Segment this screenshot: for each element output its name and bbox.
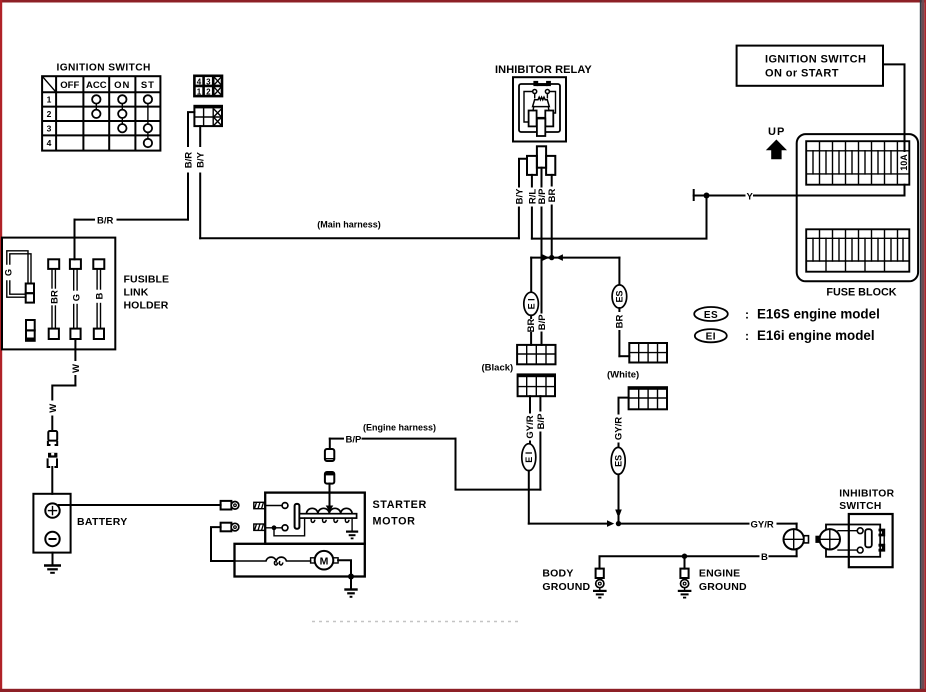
ring terminal B [221,501,239,510]
ES branch wire [612,258,629,357]
svg-text:(Black): (Black) [482,363,514,374]
svg-text:2: 2 [206,88,211,97]
svg-text:GROUND: GROUND [699,581,747,593]
svg-text:3: 3 [47,123,52,133]
svg-text:FUSIBLE: FUSIBLE [124,274,170,286]
svg-text:ES: ES [615,290,625,302]
inhibitor relay title [495,64,592,76]
solenoid B contact [265,503,288,509]
ignition switch ON or START box [737,46,883,86]
fusible link BR [48,259,61,339]
wire B/R into fusible link holder [74,220,76,260]
black connector 2 [518,374,555,396]
legend EI [695,328,875,343]
white connector 1 [629,343,667,363]
solenoid pull-in wire from S [274,518,305,536]
svg-text::: : [745,308,749,322]
arrow down to GY/R junction [615,510,622,519]
svg-text:M: M [320,556,329,568]
junction dot engine ground [682,554,687,559]
svg-text:G: G [4,269,14,276]
EI ellipse [524,292,539,315]
ES ellipse [612,285,627,308]
svg-text:BATTERY: BATTERY [77,516,128,528]
wire BR from relay [547,175,558,255]
arrow right at BR junction [542,254,549,261]
svg-text:GY/R: GY/R [614,417,625,440]
svg-text:ON or START: ON or START [765,68,839,80]
GY/R junction and wire to inhibitor switch [529,519,797,530]
relay internal wiring [524,92,556,123]
inhibitor switch slot [865,529,872,547]
ignition switch table title [57,63,151,74]
scan artifact speckles [312,621,518,623]
svg-text:STARTER: STARTER [373,499,427,511]
inhibitor switch body [849,514,893,567]
svg-text:ACC: ACC [86,80,107,91]
inhibitor switch connector (right bulb) [815,529,840,549]
fusible link holder G loop [3,251,34,303]
relay contact bridge [533,81,551,94]
svg-text:BR: BR [526,319,537,333]
arrow left at BR junction [556,254,563,261]
svg-text:IGNITION SWITCH: IGNITION SWITCH [57,63,151,74]
svg-text:W: W [71,364,82,373]
fuse block label [826,287,896,299]
svg-text:Y: Y [747,191,754,202]
svg-text:(White): (White) [607,370,639,381]
starter ground [344,577,357,597]
svg-text:4: 4 [47,138,52,148]
fusible link B [93,259,105,339]
svg-text:B/R: B/R [184,152,195,169]
connector tick on Y wire [693,190,695,200]
svg-text:B/P: B/P [346,434,363,445]
svg-text:GY/R: GY/R [525,415,536,438]
junction dot BR [549,255,554,260]
ES ellipse 2 [611,447,625,474]
wire motor to ground junction [338,560,351,576]
svg-text:(Engine harness): (Engine harness) [363,423,436,433]
svg-text:ST: ST [141,80,155,91]
legend ES [694,307,880,322]
inline connector (W wire, male half) [48,453,58,494]
svg-text:MOTOR: MOTOR [373,516,416,528]
wire B to inhibitor switch [600,549,797,569]
ignition switch table S1 [42,76,160,150]
label (Black) [482,363,514,374]
svg-text:B: B [761,552,768,563]
wire GY/R from white connector (ES) [611,398,628,524]
svg-text:OFF: OFF [60,80,79,91]
ring terminal S [221,523,239,532]
svg-text:10A: 10A [899,154,909,171]
starter motor solenoid box [265,493,427,544]
svg-text:SWITCH: SWITCH [839,501,881,512]
wire B/Y main harness [196,126,519,238]
wire Y from fuse block [694,185,905,203]
svg-text:E16S engine model: E16S engine model [757,307,880,322]
svg-text:EI: EI [706,332,716,343]
junction dot Y [704,193,710,199]
relay terminals [529,111,554,137]
svg-text:ES: ES [613,455,623,467]
svg-text:B/Y: B/Y [196,151,207,168]
starter S stud (hatched) [254,524,265,530]
svg-text:IGNITION SWITCH: IGNITION SWITCH [765,54,866,66]
solenoid coil ground [346,518,358,538]
wire B/Y from relay [515,159,528,205]
BR junction bar [531,254,619,261]
starter B stud (hatched) [254,502,265,508]
wire GY/R from black connector (EI) [522,396,536,523]
svg-text:3: 3 [206,77,211,86]
wire B/P from black connector to engine harness [536,396,547,489]
svg-text:HOLDER: HOLDER [124,300,169,312]
white connector 2 [629,387,667,409]
svg-text:1: 1 [197,88,202,97]
engine ground [678,556,747,597]
svg-text:ES: ES [704,310,718,321]
svg-text:B/R: B/R [97,215,114,226]
svg-text:B/P: B/P [537,314,548,331]
inline connector (W wire, female half) [48,431,57,445]
svg-text:E I: E I [524,452,534,463]
svg-text:UP: UP [768,126,785,138]
label G (vertical) [3,267,14,279]
svg-text:INHIBITOR: INHIBITOR [839,489,894,500]
engine harness wire B/P to starter [330,423,541,490]
starter motor lower box [235,544,365,577]
svg-text:E16i engine model: E16i engine model [757,328,875,343]
svg-text:4: 4 [197,77,202,86]
inline connector (engine harness, lower half) [325,472,334,493]
fuse block outline [797,134,918,281]
wire B/P from relay [537,168,548,345]
body ground [542,568,606,598]
svg-text:B/P: B/P [536,413,547,430]
ignition switch connector (pins 4 3 x / 1 2 x) [194,76,222,97]
ignition switch harness connector [194,106,222,126]
svg-text:INHIBITOR RELAY: INHIBITOR RELAY [495,64,592,76]
relay connector [527,146,555,175]
wire R/L to fuse block (main harness right) [532,196,707,239]
junction dot GY/R [616,521,621,526]
fusible link G [70,259,82,339]
battery ground [44,553,61,573]
fusible link holder spare connector [26,320,35,341]
relay coil [533,97,550,110]
wire battery positive to starter B terminal [59,504,221,506]
svg-text:BODY: BODY [542,568,573,580]
junction dot at starter ground [348,574,354,580]
solenoid coil [307,508,353,522]
label (White) [607,370,639,381]
wire B/R from ignition connector [75,112,195,226]
svg-text:GY/R: GY/R [751,519,774,530]
svg-text::: : [745,329,749,343]
wire W from fusible link holder [48,339,82,431]
arrow into solenoid coil [326,484,334,512]
EI branch wire [524,258,539,345]
motor M1 [311,551,338,570]
wire ignition box to fuse block [883,64,905,151]
svg-text:BR: BR [614,315,625,329]
UP arrow [766,126,787,159]
svg-text:FUSE BLOCK: FUSE BLOCK [826,287,896,299]
svg-text:BR: BR [547,189,558,203]
black connector 1 [517,345,555,364]
svg-text:E I: E I [526,298,536,309]
wire R/L from relay [527,175,538,239]
svg-text:2: 2 [47,109,52,119]
arrow right at GY/R junction [607,520,614,527]
svg-text:ON: ON [114,80,130,91]
svg-text:BR: BR [50,290,61,304]
svg-text:LINK: LINK [124,287,149,299]
inline connector (engine harness, upper half) [325,449,334,461]
fuse block lower fuse row [806,229,909,271]
solenoid S contact [265,525,288,531]
svg-text:B/Y: B/Y [515,188,526,205]
field coil [235,557,311,565]
svg-text:1: 1 [47,95,52,105]
svg-text:ENGINE: ENGINE [699,568,740,580]
svg-text:G: G [71,294,82,301]
inhibitor switch title [839,489,894,513]
inhibitor switch clips [879,529,886,552]
solenoid plunger plate [295,504,357,529]
inhibitor switch terminals [838,528,863,553]
svg-text:B: B [95,292,106,299]
wire S terminal loop to motor [211,527,235,561]
EI ellipse 2 [522,444,536,471]
inhibitor relay box [513,77,566,141]
fusible link holder box [2,238,169,350]
fuse block upper fuse row [806,141,909,185]
inhibitor switch inner frame [826,525,880,557]
inhibitor switch connector (left bulb) [784,529,809,549]
svg-text:(Main harness): (Main harness) [317,220,381,230]
svg-text:W: W [48,404,59,413]
svg-text:GROUND: GROUND [542,581,590,593]
battery [33,494,127,553]
